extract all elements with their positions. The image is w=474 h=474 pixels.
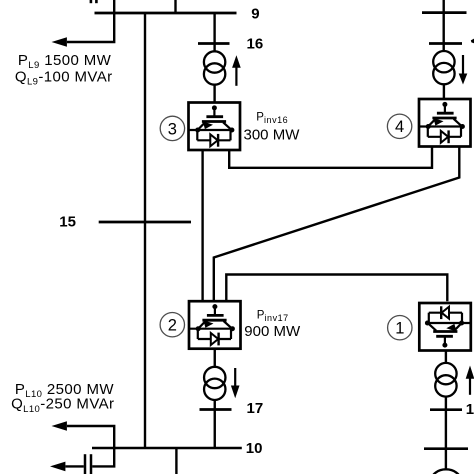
shunt capacitor arrowhead (50, 462, 65, 472)
converter U1 rotated (419, 303, 471, 351)
svg-text:4: 4 (395, 118, 404, 136)
breaker tick bus 16 (198, 42, 230, 45)
badge circle 3 (160, 116, 184, 140)
power flow arrow up at G1 (469, 379, 471, 395)
power flow arrow down head at T4 (459, 74, 468, 85)
load L9 arrowhead (52, 37, 67, 47)
breaker tick bottom right (430, 408, 462, 411)
breaker tick bus 17 (200, 408, 232, 411)
wire U3 to U4 dc link (229, 148, 432, 168)
transformer T1 circle 1 (435, 363, 456, 384)
wire bus 9 to transformer T16 (213, 13, 215, 52)
wire T17 to bus 10 (214, 400, 216, 448)
transformer T4 circle 1 (433, 51, 454, 72)
svg-text:1: 1 (395, 320, 404, 338)
wire U2 to U1 dc link (226, 275, 447, 302)
power flow arrow down at T17 (234, 368, 236, 386)
bus tick bottom right (424, 447, 468, 450)
wire top right feeder (443, 0, 445, 52)
label 11 remnant stroke 2 (95, 0, 98, 3)
badge circle 4 (387, 114, 411, 138)
svg-text:300 MW: 300 MW (244, 126, 301, 143)
bus tick top right (422, 11, 467, 14)
power flow arrow up at T16 (235, 68, 237, 86)
bus 15 (99, 221, 191, 224)
svg-text:2: 2 (168, 317, 177, 335)
wire U2 to transformer T17 (214, 350, 216, 368)
transformer T1 circle 2 (435, 375, 456, 396)
wire U3 to U2 (201, 150, 203, 302)
shunt capacitor plate left (84, 454, 87, 474)
transformer T16 circle 1 (204, 51, 225, 72)
bus label top right partial (471, 39, 474, 44)
wire T4 to converter U4 (443, 84, 445, 100)
wire U1 to transformer T1 (445, 351, 447, 364)
converter U3 (189, 103, 241, 151)
svg-text:1: 1 (466, 401, 474, 418)
shunt capacitor plate right (90, 454, 93, 474)
svg-text:3: 3 (168, 120, 177, 138)
converter U4 (419, 99, 471, 147)
load L10 tap wire (67, 426, 114, 466)
breaker tick top right (429, 42, 462, 45)
svg-text:10: 10 (246, 440, 263, 457)
wire U4 to U2 diagonal dc link (214, 148, 459, 302)
svg-text:17: 17 (247, 400, 264, 417)
wire T1 to generator (445, 396, 447, 469)
transformer T17 circle 1 (204, 367, 225, 388)
power flow arrow down head (231, 386, 240, 399)
svg-text:900 MW: 900 MW (244, 323, 301, 340)
load L10 arrowhead (52, 421, 67, 431)
power flow arrow up head (232, 55, 241, 68)
svg-text:15: 15 (59, 214, 76, 231)
generator G1 circle (432, 469, 461, 474)
shunt capacitor wire to arrow (66, 465, 84, 467)
wire T16 to converter 3 (213, 85, 215, 104)
badge circle 1 (388, 316, 412, 340)
wire stub below bus 10 (175, 448, 177, 474)
transformer T17 circle 2 (204, 379, 225, 400)
transformer T4 circle 2 (433, 63, 454, 84)
wire stub above bus 9 (174, 0, 176, 13)
svg-text:9: 9 (251, 5, 259, 22)
wire line 9-10 long vertical (144, 13, 146, 448)
svg-text:16: 16 (247, 35, 264, 52)
bus 10 (92, 447, 242, 450)
transformer T16 circle 2 (204, 63, 225, 84)
label 11 remnant (90, 0, 93, 3)
converter U2 (189, 301, 241, 349)
bus 9 (95, 12, 237, 15)
wire line to bus 11 and load L9 tap (67, 0, 114, 42)
power flow arrow up head at G1 (466, 366, 474, 379)
badge circle 2 (160, 313, 184, 337)
power flow arrow down at T4 (462, 55, 464, 74)
